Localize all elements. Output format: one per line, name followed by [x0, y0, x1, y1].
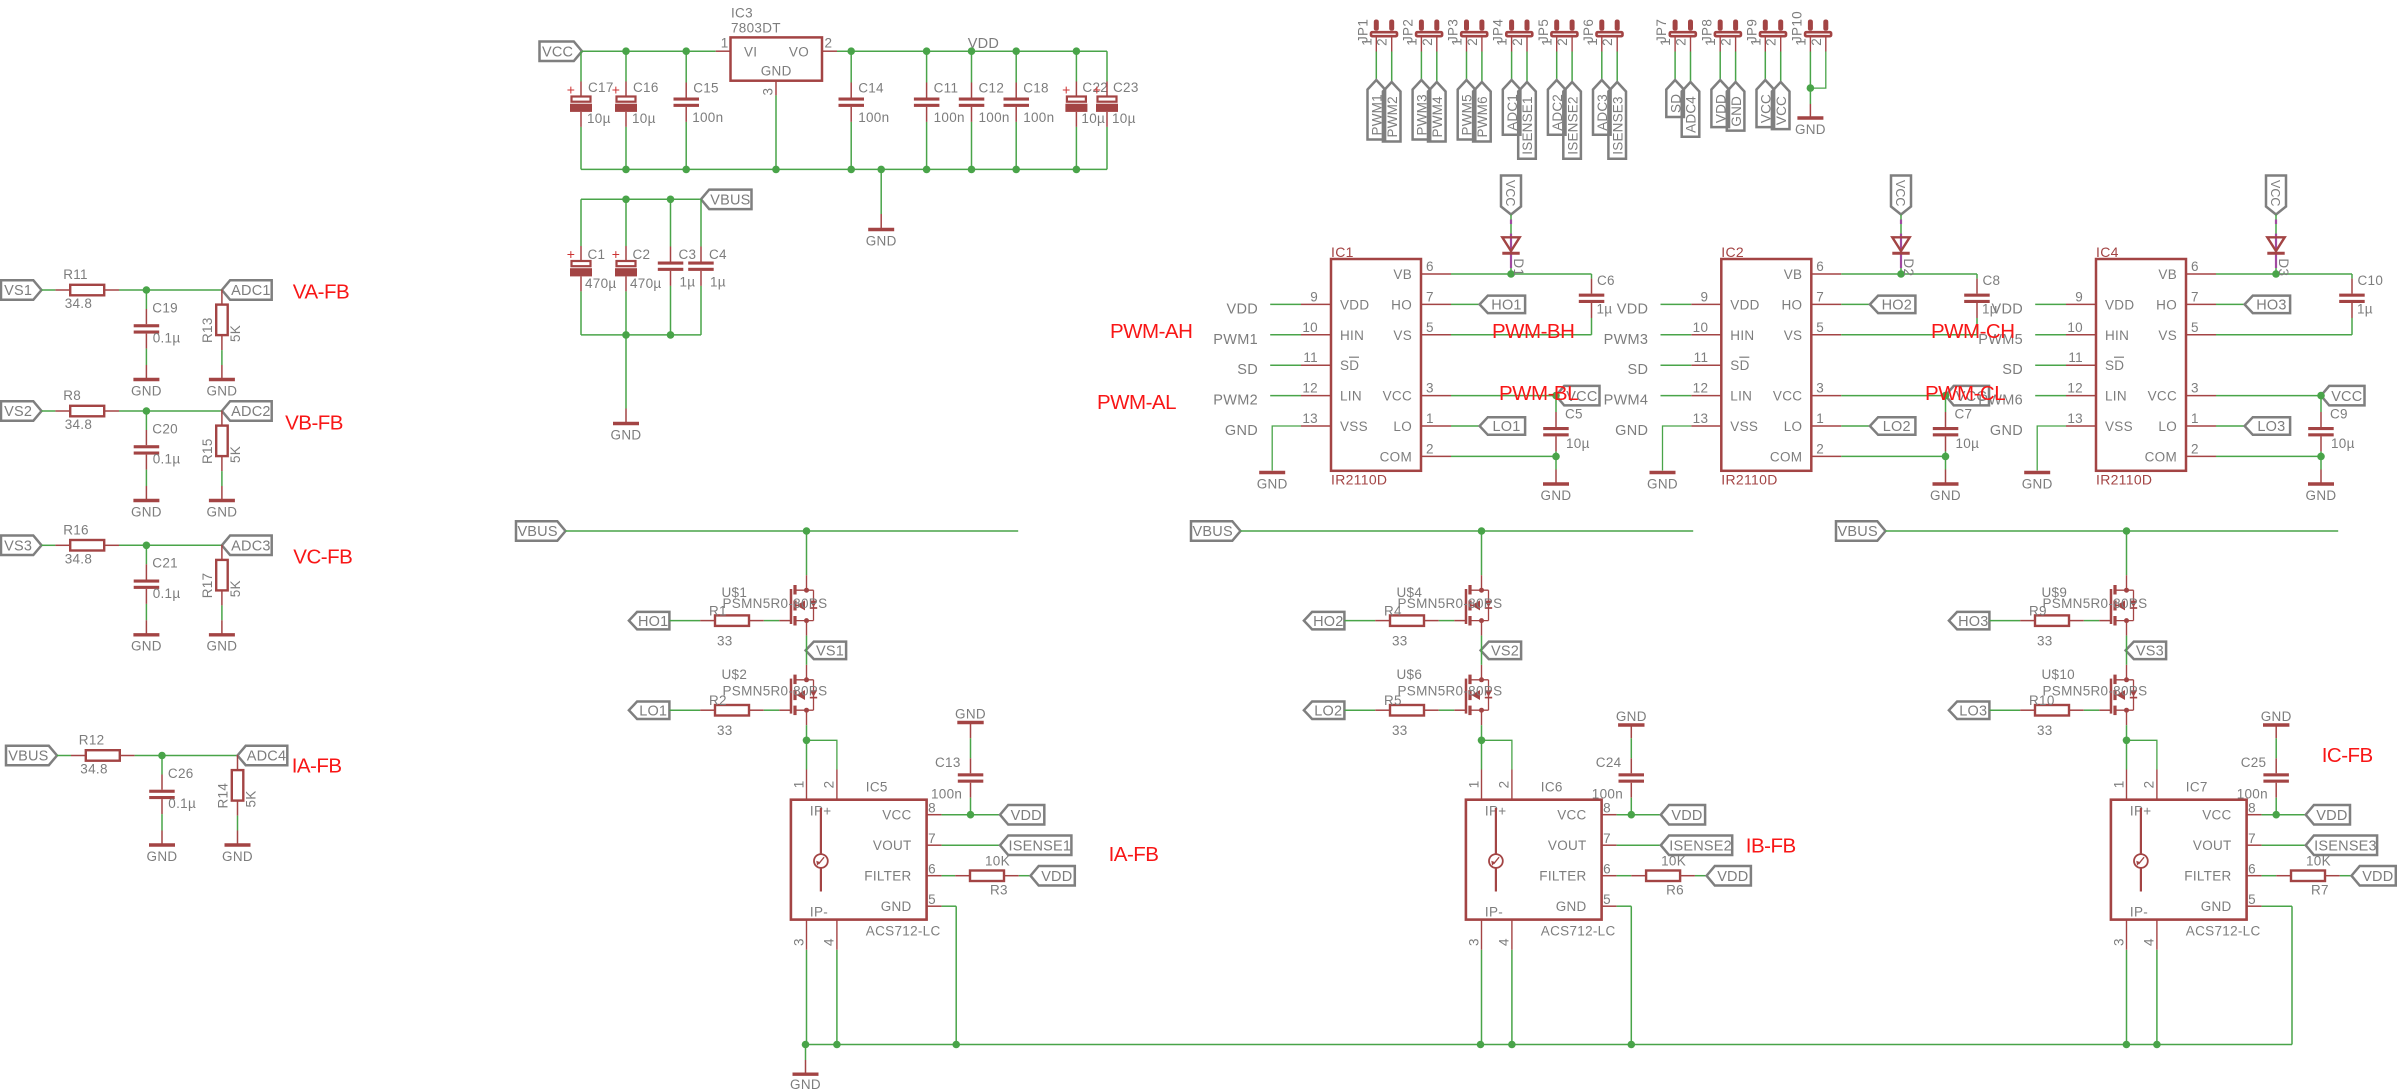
svg-text:7: 7 — [928, 831, 936, 846]
svg-text:SD: SD — [1237, 362, 1258, 378]
svg-text:9: 9 — [1700, 289, 1708, 304]
svg-text:11: 11 — [1303, 350, 1318, 365]
svg-text:VCC: VCC — [1773, 389, 1802, 404]
svg-text:PWM-CH: PWM-CH — [1931, 320, 2015, 343]
svg-text:1: 1 — [1540, 38, 1555, 46]
svg-text:0.1µ: 0.1µ — [153, 452, 181, 467]
svg-text:34.8: 34.8 — [80, 762, 107, 777]
svg-text:COM: COM — [1770, 449, 1802, 464]
svg-text:VDD: VDD — [1226, 301, 1258, 317]
svg-text:IC2: IC2 — [1721, 244, 1744, 260]
svg-text:1µ: 1µ — [1597, 302, 1613, 317]
svg-text:R6: R6 — [1666, 883, 1684, 898]
svg-text:34.8: 34.8 — [65, 551, 92, 566]
svg-text:VA-FB: VA-FB — [293, 281, 349, 304]
svg-text:HO: HO — [1781, 297, 1802, 312]
svg-text:5K: 5K — [228, 446, 243, 463]
svg-text:2: 2 — [1600, 38, 1615, 46]
svg-text:C4: C4 — [709, 247, 727, 262]
svg-text:6: 6 — [1603, 862, 1611, 877]
svg-text:VS: VS — [2158, 328, 2177, 343]
svg-text:VI: VI — [744, 44, 757, 59]
svg-text:7: 7 — [2191, 289, 2199, 304]
svg-text:5: 5 — [2191, 320, 2199, 335]
svg-text:HO: HO — [1391, 297, 1412, 312]
svg-text:IA-FB: IA-FB — [292, 754, 342, 777]
svg-text:12: 12 — [2067, 381, 2083, 396]
svg-text:1: 1 — [1748, 38, 1763, 46]
svg-text:VOUT: VOUT — [873, 838, 912, 853]
svg-text:COM: COM — [1380, 449, 1412, 464]
svg-text:5: 5 — [2248, 892, 2256, 907]
svg-text:3: 3 — [1466, 938, 1481, 946]
svg-text:VDD: VDD — [2362, 869, 2393, 885]
svg-text:C21: C21 — [152, 556, 178, 571]
svg-text:VOUT: VOUT — [1548, 838, 1587, 853]
svg-text:3: 3 — [2191, 381, 2199, 396]
svg-text:C6: C6 — [1597, 273, 1615, 288]
svg-text:ADC2: ADC2 — [231, 404, 270, 420]
svg-text:IP-: IP- — [2130, 905, 2148, 920]
svg-text:13: 13 — [2067, 411, 2083, 426]
svg-text:VDD: VDD — [1617, 301, 1649, 317]
svg-text:LO: LO — [2158, 419, 2177, 434]
svg-text:D2: D2 — [1901, 258, 1916, 276]
svg-text:100n: 100n — [979, 110, 1010, 125]
svg-text:VS: VS — [1393, 328, 1412, 343]
svg-text:VBUS: VBUS — [710, 193, 750, 209]
svg-text:5: 5 — [1426, 320, 1434, 335]
svg-text:GND: GND — [1225, 423, 1258, 439]
svg-text:GND: GND — [611, 427, 642, 442]
svg-text:C3: C3 — [679, 247, 697, 262]
svg-text:11: 11 — [2068, 350, 2083, 365]
svg-text:13: 13 — [1302, 411, 1318, 426]
svg-text:VB: VB — [1784, 267, 1803, 282]
svg-text:GND: GND — [1556, 899, 1587, 914]
svg-text:VOUT: VOUT — [2193, 838, 2232, 853]
svg-text:U$10: U$10 — [2042, 667, 2075, 682]
svg-text:HO2: HO2 — [1882, 298, 1912, 314]
svg-text:HO1: HO1 — [1491, 298, 1521, 314]
svg-text:C23: C23 — [1113, 80, 1139, 95]
svg-text:PSMN5R0-80PS: PSMN5R0-80PS — [2043, 683, 2148, 698]
svg-text:ACS712-LC: ACS712-LC — [2186, 924, 2261, 939]
svg-text:13: 13 — [1693, 411, 1709, 426]
svg-text:SD: SD — [1628, 362, 1649, 378]
svg-text:PWM1: PWM1 — [1213, 332, 1258, 348]
svg-text:1: 1 — [1450, 38, 1465, 46]
svg-text:R4: R4 — [1384, 604, 1402, 619]
svg-text:GND: GND — [2201, 899, 2232, 914]
svg-text:7: 7 — [1816, 289, 1824, 304]
svg-text:1: 1 — [1793, 38, 1808, 46]
svg-text:HO2: HO2 — [1313, 614, 1343, 630]
svg-text:VS1: VS1 — [816, 644, 844, 660]
svg-text:C12: C12 — [979, 81, 1005, 96]
svg-text:GND: GND — [866, 233, 897, 248]
svg-text:2: 2 — [2142, 780, 2157, 788]
svg-text:VS3: VS3 — [4, 539, 32, 555]
svg-text:VB: VB — [2158, 267, 2177, 282]
svg-text:2: 2 — [1420, 38, 1435, 46]
svg-text:IP-: IP- — [810, 905, 828, 920]
svg-text:ADC3: ADC3 — [231, 539, 270, 555]
svg-text:7803DT: 7803DT — [731, 21, 781, 36]
svg-text:PWM4: PWM4 — [1604, 393, 1649, 409]
svg-text:PWM-BL: PWM-BL — [1499, 382, 1578, 405]
svg-text:PSMN5R0-80PS: PSMN5R0-80PS — [2043, 596, 2148, 611]
svg-text:8: 8 — [1603, 801, 1611, 816]
svg-text:VCC: VCC — [1503, 180, 1517, 206]
svg-text:12: 12 — [1693, 381, 1709, 396]
svg-text:1: 1 — [1404, 38, 1419, 46]
svg-text:C20: C20 — [152, 421, 178, 436]
svg-text:VSS: VSS — [1340, 419, 1368, 434]
svg-text:PWM-AL: PWM-AL — [1097, 391, 1176, 414]
svg-text:R12: R12 — [79, 733, 105, 748]
svg-text:HIN: HIN — [1340, 328, 1364, 343]
svg-text:ACS712-LC: ACS712-LC — [866, 924, 941, 939]
svg-text:PWM4: PWM4 — [1430, 96, 1445, 138]
svg-text:HIN: HIN — [1730, 328, 1754, 343]
svg-text:C16: C16 — [633, 80, 659, 95]
svg-text:2: 2 — [1497, 780, 1512, 788]
svg-text:7: 7 — [2248, 831, 2256, 846]
svg-text:ISENSE2: ISENSE2 — [1565, 96, 1580, 154]
svg-text:PWM-CL: PWM-CL — [1925, 382, 2005, 405]
svg-text:2: 2 — [1510, 38, 1525, 46]
svg-text:100n: 100n — [858, 110, 889, 125]
svg-text:C1: C1 — [588, 247, 606, 262]
svg-text:10µ: 10µ — [632, 111, 656, 126]
svg-text:U$2: U$2 — [722, 667, 748, 682]
svg-text:FILTER: FILTER — [2184, 869, 2231, 884]
svg-text:470µ: 470µ — [630, 276, 662, 291]
svg-text:SD: SD — [2002, 362, 2023, 378]
svg-text:VC-FB: VC-FB — [293, 545, 352, 568]
svg-text:VDD: VDD — [1340, 297, 1369, 312]
svg-text:VDD: VDD — [1011, 808, 1042, 824]
svg-text:HIN: HIN — [2105, 328, 2129, 343]
svg-text:1: 1 — [1658, 38, 1673, 46]
svg-text:1: 1 — [2111, 780, 2126, 788]
svg-text:10µ: 10µ — [1566, 436, 1590, 451]
svg-text:+: + — [612, 82, 620, 98]
svg-text:33: 33 — [717, 634, 733, 649]
svg-text:1: 1 — [721, 36, 729, 51]
svg-text:VBUS: VBUS — [1193, 524, 1233, 540]
svg-text:D1: D1 — [1511, 258, 1526, 276]
svg-text:ADC1: ADC1 — [231, 283, 270, 299]
svg-text:HO1: HO1 — [638, 614, 668, 630]
svg-text:7: 7 — [1603, 831, 1611, 846]
svg-text:HO3: HO3 — [2256, 298, 2286, 314]
svg-text:GND: GND — [1616, 709, 1647, 724]
svg-text:VCC: VCC — [2268, 180, 2282, 206]
svg-text:VCC: VCC — [882, 808, 911, 823]
svg-text:+: + — [612, 246, 620, 262]
svg-text:0.1µ: 0.1µ — [153, 586, 181, 601]
svg-text:VCC: VCC — [2148, 389, 2177, 404]
svg-text:IC7: IC7 — [2186, 780, 2208, 795]
svg-text:5K: 5K — [228, 580, 243, 597]
svg-text:LO: LO — [1393, 419, 1412, 434]
svg-text:4: 4 — [2142, 938, 2157, 946]
svg-text:LIN: LIN — [1340, 389, 1362, 404]
svg-text:VCC: VCC — [1383, 389, 1412, 404]
svg-text:33: 33 — [1392, 723, 1408, 738]
svg-text:GND: GND — [955, 706, 986, 721]
svg-text:6: 6 — [1426, 259, 1434, 274]
svg-text:100n: 100n — [1023, 110, 1054, 125]
svg-text:C2: C2 — [633, 247, 651, 262]
svg-text:4: 4 — [822, 938, 837, 946]
svg-text:IR2110D: IR2110D — [1721, 472, 1777, 488]
svg-text:2: 2 — [1426, 441, 1434, 456]
svg-text:IC6: IC6 — [1541, 780, 1563, 795]
svg-text:100n: 100n — [2237, 787, 2268, 802]
svg-text:R3: R3 — [990, 883, 1008, 898]
svg-text:R15: R15 — [200, 438, 215, 464]
svg-text:10: 10 — [1302, 320, 1318, 335]
svg-text:VO: VO — [789, 44, 809, 59]
svg-text:1: 1 — [1495, 38, 1510, 46]
svg-text:VDD: VDD — [1991, 301, 2023, 317]
svg-text:33: 33 — [2037, 634, 2053, 649]
svg-text:470µ: 470µ — [585, 276, 617, 291]
svg-text:33: 33 — [2037, 723, 2053, 738]
svg-text:IC-FB: IC-FB — [2322, 744, 2373, 767]
svg-text:PWM2: PWM2 — [1385, 96, 1400, 137]
svg-text:LIN: LIN — [2105, 389, 2127, 404]
svg-text:C9: C9 — [2330, 406, 2348, 421]
svg-text:5: 5 — [1603, 892, 1611, 907]
svg-text:1: 1 — [1585, 38, 1600, 46]
svg-text:R9: R9 — [2029, 604, 2047, 619]
svg-text:10: 10 — [2067, 320, 2083, 335]
svg-text:5: 5 — [928, 892, 936, 907]
svg-text:GND: GND — [1930, 488, 1961, 503]
svg-text:33: 33 — [1392, 634, 1408, 649]
svg-text:2: 2 — [1764, 38, 1779, 46]
svg-text:C26: C26 — [168, 766, 194, 781]
svg-text:PWM2: PWM2 — [1213, 393, 1258, 409]
svg-text:100n: 100n — [931, 787, 962, 802]
svg-text:GND: GND — [206, 504, 237, 519]
svg-text:C7: C7 — [1955, 406, 1973, 421]
svg-text:GND: GND — [131, 504, 162, 519]
svg-text:VDD: VDD — [2105, 297, 2134, 312]
svg-text:ISENSE3: ISENSE3 — [1610, 96, 1625, 154]
svg-text:R13: R13 — [200, 317, 215, 343]
svg-text:9: 9 — [2075, 289, 2083, 304]
svg-text:5K: 5K — [244, 790, 259, 807]
svg-text:2: 2 — [2191, 441, 2199, 456]
svg-text:PWM-AH: PWM-AH — [1110, 320, 1192, 343]
svg-text:VBUS: VBUS — [517, 524, 557, 540]
svg-text:10K: 10K — [1661, 854, 1686, 869]
svg-text:VB: VB — [1393, 267, 1412, 282]
svg-text:6: 6 — [1816, 259, 1824, 274]
svg-text:R7: R7 — [2311, 883, 2329, 898]
svg-text:VDD: VDD — [1671, 808, 1702, 824]
svg-text:GND: GND — [131, 639, 162, 654]
svg-text:+: + — [1062, 82, 1070, 98]
svg-text:C15: C15 — [693, 81, 719, 96]
svg-text:33: 33 — [717, 723, 733, 738]
svg-text:VDD: VDD — [1041, 869, 1072, 885]
svg-text:FILTER: FILTER — [864, 869, 911, 884]
svg-text:5: 5 — [1816, 320, 1824, 335]
svg-text:34.8: 34.8 — [65, 296, 92, 311]
svg-text:GND: GND — [1990, 423, 2023, 439]
svg-text:4: 4 — [1497, 938, 1512, 946]
svg-text:2: 2 — [822, 780, 837, 788]
svg-text:2: 2 — [1375, 38, 1390, 46]
svg-text:PWM6: PWM6 — [1475, 96, 1490, 137]
svg-text:PWM3: PWM3 — [1604, 332, 1649, 348]
svg-text:PSMN5R0-80PS: PSMN5R0-80PS — [1398, 596, 1503, 611]
svg-text:VSS: VSS — [2105, 419, 2133, 434]
svg-text:1: 1 — [1466, 780, 1481, 788]
svg-text:VDD: VDD — [1717, 869, 1748, 885]
svg-text:SD: SD — [1340, 358, 1359, 373]
svg-text:C10: C10 — [2358, 273, 2384, 288]
svg-text:C19: C19 — [152, 300, 178, 315]
svg-text:6: 6 — [2248, 862, 2256, 877]
svg-text:VBUS: VBUS — [8, 749, 48, 765]
svg-text:8: 8 — [928, 801, 936, 816]
svg-text:GND: GND — [222, 849, 253, 864]
svg-text:IB-FB: IB-FB — [1746, 834, 1796, 857]
svg-text:6: 6 — [928, 862, 936, 877]
svg-text:VCC: VCC — [542, 44, 573, 60]
svg-text:2: 2 — [1816, 441, 1824, 456]
svg-text:VCC: VCC — [2331, 389, 2362, 405]
svg-text:IR2110D: IR2110D — [1331, 472, 1387, 488]
svg-text:VS2: VS2 — [4, 404, 32, 420]
svg-text:ADC4: ADC4 — [247, 749, 286, 765]
svg-text:VCC: VCC — [1774, 96, 1789, 125]
svg-text:5K: 5K — [228, 325, 243, 342]
svg-text:GND: GND — [790, 1077, 821, 1090]
svg-text:PWM-BH: PWM-BH — [1492, 320, 1574, 343]
svg-text:1: 1 — [2191, 411, 2199, 426]
svg-text:2: 2 — [1809, 38, 1824, 46]
svg-text:2: 2 — [1719, 38, 1734, 46]
svg-text:3: 3 — [761, 88, 776, 96]
svg-text:LO3: LO3 — [2257, 419, 2285, 435]
svg-text:R17: R17 — [200, 573, 215, 599]
svg-text:10µ: 10µ — [1081, 111, 1105, 126]
svg-text:GND: GND — [131, 383, 162, 398]
svg-text:R5: R5 — [1384, 693, 1402, 708]
svg-text:GND: GND — [206, 383, 237, 398]
svg-text:GND: GND — [1729, 96, 1744, 127]
svg-text:VDD: VDD — [2316, 808, 2347, 824]
svg-text:GND: GND — [761, 64, 792, 79]
svg-text:GND: GND — [2306, 488, 2337, 503]
svg-text:IC4: IC4 — [2096, 244, 2119, 260]
svg-text:+: + — [567, 246, 575, 262]
svg-text:LO1: LO1 — [1492, 419, 1520, 435]
svg-text:IC5: IC5 — [866, 780, 888, 795]
svg-text:HO3: HO3 — [1958, 614, 1988, 630]
svg-text:GND: GND — [2261, 709, 2292, 724]
svg-text:3: 3 — [1426, 381, 1434, 396]
svg-text:C5: C5 — [1565, 406, 1583, 421]
svg-text:VDD: VDD — [1730, 297, 1759, 312]
svg-text:ACS712-LC: ACS712-LC — [1541, 924, 1616, 939]
svg-text:0.1µ: 0.1µ — [168, 796, 196, 811]
svg-text:11: 11 — [1694, 350, 1709, 365]
svg-text:VS3: VS3 — [2136, 644, 2164, 660]
svg-text:VBUS: VBUS — [1838, 524, 1878, 540]
svg-text:34.8: 34.8 — [65, 417, 92, 432]
svg-text:IA-FB: IA-FB — [1109, 843, 1159, 866]
svg-text:D3: D3 — [2276, 258, 2291, 276]
svg-text:C8: C8 — [1983, 273, 2001, 288]
svg-text:HO: HO — [2156, 297, 2177, 312]
svg-text:100n: 100n — [1592, 787, 1623, 802]
svg-text:COM: COM — [2145, 449, 2177, 464]
svg-text:LO2: LO2 — [1883, 419, 1911, 435]
svg-text:R10: R10 — [2029, 693, 2055, 708]
svg-text:GND: GND — [206, 639, 237, 654]
svg-text:1µ: 1µ — [680, 274, 696, 289]
svg-text:R1: R1 — [709, 604, 727, 619]
svg-text:10K: 10K — [2306, 854, 2331, 869]
svg-text:FILTER: FILTER — [1539, 869, 1586, 884]
svg-text:IC1: IC1 — [1331, 244, 1354, 260]
svg-text:100n: 100n — [934, 110, 965, 125]
svg-text:R2: R2 — [709, 693, 727, 708]
svg-text:3: 3 — [1816, 381, 1824, 396]
svg-text:R8: R8 — [63, 388, 81, 403]
svg-text:C13: C13 — [935, 755, 961, 770]
svg-text:GND: GND — [1795, 122, 1826, 137]
svg-text:ISENSE1: ISENSE1 — [1520, 96, 1535, 154]
svg-text:10µ: 10µ — [2331, 436, 2355, 451]
svg-text:LIN: LIN — [1730, 389, 1752, 404]
svg-text:1µ: 1µ — [710, 274, 726, 289]
svg-text:GND: GND — [881, 899, 912, 914]
svg-text:LO2: LO2 — [1314, 703, 1342, 719]
svg-text:1: 1 — [791, 780, 806, 788]
svg-text:ADC4: ADC4 — [1684, 96, 1699, 133]
svg-text:GND: GND — [1541, 488, 1572, 503]
svg-text:VS1: VS1 — [4, 283, 32, 299]
svg-text:GND: GND — [1615, 423, 1648, 439]
svg-text:+: + — [567, 82, 575, 98]
svg-text:LO: LO — [1784, 419, 1803, 434]
svg-text:2: 2 — [1465, 38, 1480, 46]
svg-text:1: 1 — [1426, 411, 1434, 426]
svg-text:R16: R16 — [63, 522, 89, 537]
svg-text:100n: 100n — [692, 110, 723, 125]
svg-text:GND: GND — [147, 849, 178, 864]
svg-text:10µ: 10µ — [1956, 436, 1980, 451]
svg-text:GND: GND — [1257, 476, 1288, 491]
svg-text:VSS: VSS — [1730, 419, 1758, 434]
svg-text:10µ: 10µ — [1112, 111, 1136, 126]
svg-text:12: 12 — [1302, 381, 1318, 396]
svg-text:IC3: IC3 — [731, 6, 753, 21]
svg-text:C14: C14 — [858, 81, 884, 96]
svg-text:1: 1 — [1816, 411, 1824, 426]
svg-text:1: 1 — [1359, 38, 1374, 46]
